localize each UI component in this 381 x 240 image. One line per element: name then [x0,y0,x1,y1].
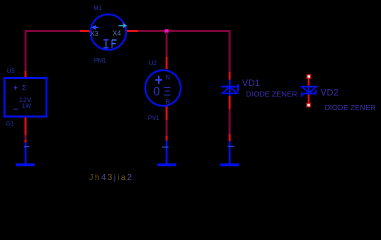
VD2 bar hook left [301,93,303,96]
PV1 plus sign [155,76,162,84]
VD1 bar hook right [237,84,239,91]
svg-text:12V: 12V [19,97,32,104]
VD2 top pin square [307,74,312,79]
VD2 center line [308,86,310,95]
VD2 bottom pin square [306,103,311,108]
VD2 bar hook right [315,90,317,94]
wire pin PM1 left [80,30,90,32]
wire zener branch vertical [229,31,231,72]
PM1 right arrow [119,24,127,28]
svg-text:X4: X4 [113,30,122,37]
wire VD1 to ground [229,109,231,135]
wire top horizontal right [138,30,231,32]
wire junction down [166,32,168,58]
svg-text:0: 0 [153,85,160,99]
ground left [16,142,35,166]
wire pin PM1 right [127,30,138,32]
solar cell U5 body [5,78,47,117]
VD2 cathode bar [301,93,317,95]
wire pin VD1 top [229,72,231,80]
photocell PV1 body [145,70,181,106]
svg-text:G1: G1 [6,122,15,128]
PM1 value IF [103,40,116,48]
zener diode VD1 [221,80,239,97]
svg-text:R: R [166,99,171,106]
VD2 bottom red lead [308,95,310,103]
VD1 triangle [222,87,237,94]
ground middle [157,141,176,167]
wire top horizontal left [25,30,82,32]
ground right [220,141,239,166]
svg-text:Jh43jia2: Jh43jia2 [89,172,134,182]
svg-text:U2: U2 [149,61,157,67]
svg-text:X3: X3 [90,31,99,38]
svg-text:Ξ: Ξ [163,85,171,99]
VD1 cathode bar [221,86,239,88]
svg-text:PM1: PM1 [94,59,107,65]
svg-text:M1: M1 [94,6,103,12]
wire pin into U5 top [25,71,27,79]
svg-text:−: − [13,104,18,114]
wire pin VD1 bottom [229,96,231,109]
wire top-left vertical [25,30,27,72]
wire pin PV1 top [166,57,168,69]
node junction dot [165,29,169,33]
svg-text:1W: 1W [22,104,31,110]
svg-text:N: N [166,76,170,82]
transducer PM1 body [91,14,127,50]
wire U5 to ground [25,135,27,141]
svg-text:VD1: VD1 [242,78,260,88]
wire red tip above left ground [25,140,27,143]
zener diode VD2 (floating) [301,74,317,107]
wire PV1 to ground [166,120,168,137]
svg-text:DIODE ZENER: DIODE ZENER [325,103,377,112]
VD2 triangle [302,87,317,93]
svg-text:Σ·: Σ· [22,85,29,92]
wire red tip above right ground [229,134,231,141]
wire pin PV1 bottom [166,105,168,120]
svg-text:DIODE ZENER: DIODE ZENER [246,90,298,99]
svg-text:PV1: PV1 [148,116,160,122]
svg-text:+: + [13,83,18,93]
wire red tip above middle ground [166,136,168,141]
VD1 center line [229,80,231,97]
PM1 left arrow [93,26,99,30]
svg-text:U5: U5 [7,69,15,75]
VD2 top red lead [308,79,310,87]
wire pin U5 bottom [25,117,27,135]
svg-text:VD2: VD2 [321,88,339,98]
